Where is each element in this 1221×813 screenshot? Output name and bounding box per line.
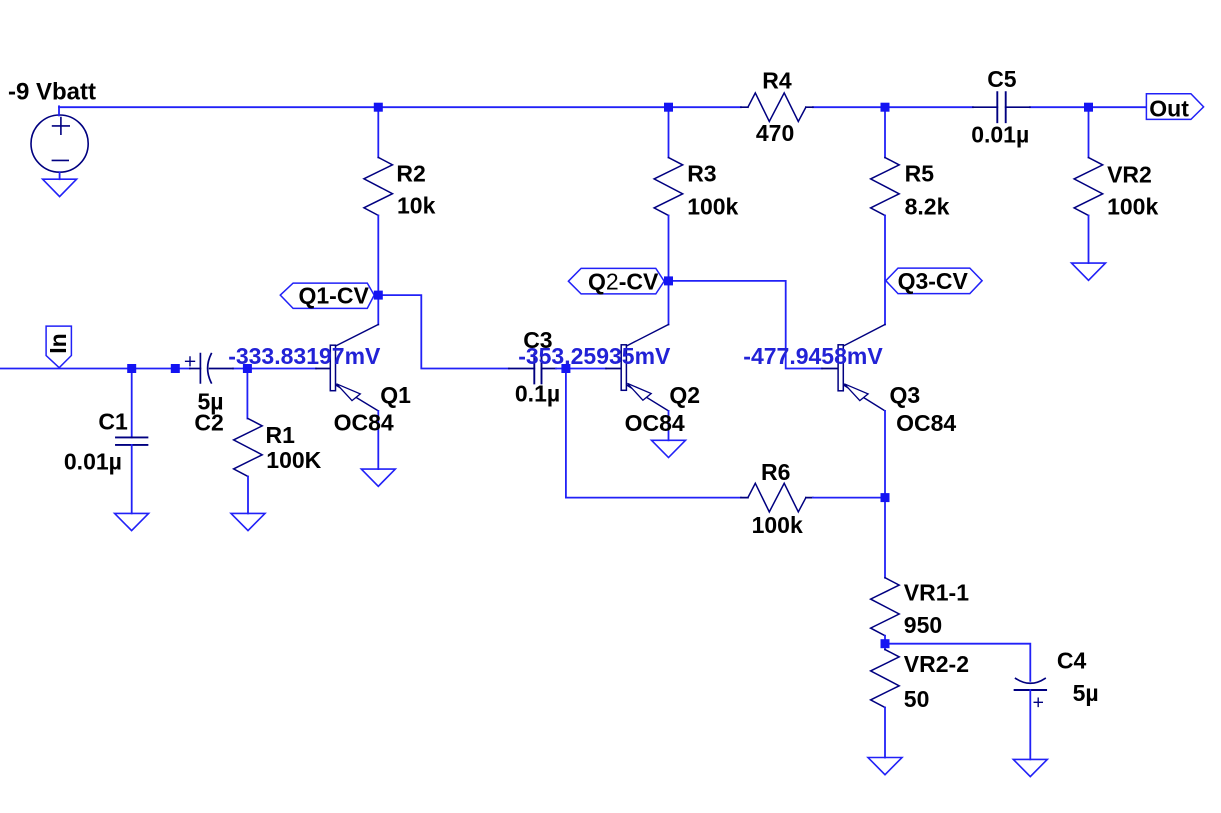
svg-text:Q2-CV: Q2-CV xyxy=(588,269,659,295)
node Q1-CV xyxy=(374,291,383,300)
wire C3 to Q2 base xyxy=(556,368,606,370)
ground VR2-2 xyxy=(868,758,902,775)
svg-text:-477.9458mV: -477.9458mV xyxy=(743,343,883,369)
svg-text:0.01µ: 0.01µ xyxy=(64,449,122,475)
transistor Q2 xyxy=(606,325,669,411)
svg-text:-353.25935mV: -353.25935mV xyxy=(518,343,671,369)
svg-text:100K: 100K xyxy=(266,447,321,473)
svg-text:100k: 100k xyxy=(687,193,738,219)
capacitor C2 polarized xyxy=(186,354,233,383)
node VR1-1 VR2-2 C4 xyxy=(881,639,890,648)
resistor VR1-1 xyxy=(871,578,900,636)
port flag Out xyxy=(1146,94,1203,120)
node rail C5-VR2 xyxy=(1084,103,1093,112)
ground C1 xyxy=(115,513,149,530)
node Q3 emitter R6 xyxy=(881,493,890,502)
ground battery xyxy=(43,179,77,196)
svg-text:470: 470 xyxy=(756,120,794,146)
svg-text:R6: R6 xyxy=(761,459,790,485)
svg-text:8.2k: 8.2k xyxy=(905,193,950,219)
node C3 right xyxy=(561,364,570,373)
wire battery top stub xyxy=(58,106,60,115)
resistor R6 xyxy=(748,483,806,512)
svg-text:Q2: Q2 xyxy=(669,382,700,408)
svg-text:Q1: Q1 xyxy=(380,382,411,408)
transistor Q3 xyxy=(822,325,885,411)
svg-text:950: 950 xyxy=(904,612,942,638)
wire C1 bottom xyxy=(131,445,133,514)
capacitor C3 xyxy=(509,353,556,383)
ground C4 xyxy=(1013,759,1047,776)
svg-text:OC84: OC84 xyxy=(896,410,956,436)
wire input line from left edge xyxy=(0,368,190,370)
wire R6 to Q3 emitter node xyxy=(813,497,885,499)
node Q2-CV xyxy=(664,276,673,285)
svg-text:-333.83197mV: -333.83197mV xyxy=(228,343,381,369)
wire Q1 emitter xyxy=(377,411,379,469)
wire Q2 collector feed xyxy=(668,281,670,325)
wire VR2-2 bottom xyxy=(884,708,886,758)
port flag In xyxy=(46,326,71,368)
svg-text:OC84: OC84 xyxy=(625,410,685,436)
svg-text:100k: 100k xyxy=(1107,193,1158,219)
ground Q2 xyxy=(652,440,686,457)
svg-text:VR2-2: VR2-2 xyxy=(904,651,969,677)
wire C3 node down to R6 xyxy=(566,369,741,498)
wire top rail left segment xyxy=(59,106,741,108)
svg-text:C5: C5 xyxy=(987,66,1017,92)
svg-text:R5: R5 xyxy=(905,160,935,186)
svg-text:R2: R2 xyxy=(396,160,425,186)
svg-text:C2: C2 xyxy=(194,409,223,435)
node C1 junction xyxy=(127,364,136,373)
wire Q2-CV node to Q3 base xyxy=(669,281,823,369)
resistor R4 leads xyxy=(741,106,813,108)
capacitor C5 xyxy=(973,92,1030,122)
transistor Q1 xyxy=(316,325,378,411)
svg-text:100k: 100k xyxy=(752,512,803,538)
svg-text:-9 Vbatt: -9 Vbatt xyxy=(8,79,96,106)
wire R5 bottom to Q3 collector xyxy=(884,216,886,325)
svg-text:Q1-CV: Q1-CV xyxy=(299,283,370,309)
voltage source V1 (-9 Vbatt) xyxy=(31,115,88,172)
wire VR2 top xyxy=(1088,107,1090,157)
wire Q1 collector feed xyxy=(377,295,379,324)
svg-text:50: 50 xyxy=(904,686,930,712)
resistor VR2 xyxy=(1074,158,1103,216)
resistor R5 xyxy=(871,158,900,216)
svg-text:C1: C1 xyxy=(98,409,128,435)
resistor R6 leads xyxy=(741,497,813,499)
svg-text:VR2: VR2 xyxy=(1107,161,1152,187)
ground VR2 xyxy=(1072,263,1106,280)
ground R1 xyxy=(231,513,265,530)
wire C1 top xyxy=(131,369,133,438)
wire top rail right segment xyxy=(1030,106,1147,108)
svg-text:R4: R4 xyxy=(762,67,792,93)
svg-text:Out: Out xyxy=(1149,96,1189,122)
node rail R5 xyxy=(881,103,890,112)
net flag Q3-CV xyxy=(886,268,982,294)
net flag Q2-CV xyxy=(568,268,664,294)
node C2 left xyxy=(171,364,180,373)
wire R3 top xyxy=(668,107,670,157)
resistor R2 xyxy=(364,157,393,215)
svg-text:OC84: OC84 xyxy=(334,409,394,435)
wire R2 bottom xyxy=(377,215,379,295)
svg-text:10k: 10k xyxy=(397,192,436,218)
wire R5 top xyxy=(884,107,886,157)
wire R1 top xyxy=(246,369,248,419)
svg-text:0.1µ: 0.1µ xyxy=(515,380,560,406)
wire R1 bottom xyxy=(247,477,249,514)
node C2 right xyxy=(243,364,252,373)
svg-text:VR1-1: VR1-1 xyxy=(904,580,969,606)
wire top rail middle segment xyxy=(813,106,973,108)
resistor VR2-2 xyxy=(871,650,900,708)
node rail R2 xyxy=(374,103,383,112)
capacitor C4 polarized xyxy=(1015,678,1047,706)
svg-text:5µ: 5µ xyxy=(1073,680,1099,706)
wire VR1-1 top xyxy=(884,498,886,578)
resistor R4 xyxy=(748,93,806,122)
wire R2 top xyxy=(377,107,379,157)
ground Q1 xyxy=(361,469,395,486)
svg-text:Q3-CV: Q3-CV xyxy=(898,268,969,294)
wire VR1-1 bottom xyxy=(884,636,886,650)
net flag Q1-CV xyxy=(280,283,374,308)
svg-text:R1: R1 xyxy=(266,422,296,448)
capacitor C1 xyxy=(116,437,147,445)
svg-text:Q3: Q3 xyxy=(890,382,921,408)
resistor R1 xyxy=(234,419,263,477)
svg-text:R3: R3 xyxy=(687,160,716,186)
wire Q1-CV node to C3 xyxy=(378,295,509,368)
node junction squares xyxy=(127,103,1093,649)
wire Q2 emitter xyxy=(668,411,670,440)
wire VR2 bottom xyxy=(1088,216,1090,264)
svg-text:0.01µ: 0.01µ xyxy=(971,121,1029,147)
wire battery bottom stub xyxy=(59,172,61,179)
svg-text:C4: C4 xyxy=(1057,647,1087,673)
wire C2 to Q1 base xyxy=(233,368,316,370)
node rail R3 xyxy=(664,103,673,112)
svg-text:In: In xyxy=(45,333,71,353)
wire R3 bottom xyxy=(668,216,670,281)
resistor R3 xyxy=(654,158,683,216)
wire Q3 emitter xyxy=(884,411,886,498)
wire C4 bottom xyxy=(1029,690,1031,759)
wire VR1 node to C4 xyxy=(885,644,1030,681)
